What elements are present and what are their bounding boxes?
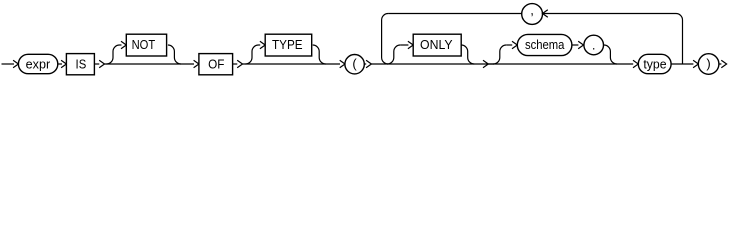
loop top line left bbox=[388, 13, 522, 15]
loop top line right bbox=[543, 13, 677, 15]
wire entry bbox=[2, 63, 15, 65]
branch down after NOT bbox=[168, 45, 181, 64]
svg-text:IS: IS bbox=[76, 56, 87, 71]
svg-text:schema: schema bbox=[525, 37, 565, 52]
arrow into OF bbox=[194, 60, 199, 67]
wire NOT bypass bbox=[105, 63, 195, 65]
arrow into expr bbox=[13, 60, 18, 67]
arrow after ( bbox=[366, 60, 371, 67]
keyword OF bbox=[199, 54, 233, 75]
branch up to NOT bbox=[107, 45, 120, 64]
keyword NOT bbox=[126, 34, 166, 56]
arrow into NOT bbox=[121, 41, 126, 48]
wire after ( bbox=[364, 63, 366, 65]
svg-text:(: ( bbox=[352, 56, 357, 71]
terminal expr bbox=[18, 54, 57, 73]
svg-text:TYPE: TYPE bbox=[272, 37, 303, 52]
terminal schema bbox=[517, 34, 572, 55]
svg-text:expr: expr bbox=[26, 56, 51, 71]
svg-text:ONLY: ONLY bbox=[420, 37, 453, 52]
branch up to TYPE bbox=[246, 45, 259, 64]
wire to TYPE bbox=[259, 44, 261, 46]
svg-text:,: , bbox=[530, 3, 534, 18]
wire after IS bbox=[94, 63, 99, 65]
loop comma circle bbox=[522, 4, 543, 25]
branch up to schema bbox=[493, 45, 506, 64]
svg-text:type: type bbox=[643, 56, 666, 71]
branch down after ONLY bbox=[461, 45, 474, 64]
arrow after ONLY merge bbox=[483, 60, 488, 67]
branch up to ONLY bbox=[387, 45, 400, 64]
loop left riser and corner bbox=[382, 14, 389, 65]
wire to ONLY bbox=[400, 44, 408, 46]
wire schema bypass bbox=[488, 63, 633, 65]
wire schema to dot bbox=[572, 44, 579, 46]
wire to schema bbox=[506, 44, 512, 46]
branch down after TYPE bbox=[313, 45, 326, 64]
wire type to close paren bbox=[671, 63, 693, 65]
arrow exit bbox=[721, 60, 726, 67]
branch down after dot bbox=[604, 45, 617, 64]
wire expr to IS bbox=[58, 63, 62, 65]
arrow into TYPE bbox=[260, 41, 265, 48]
arrow into type bbox=[633, 60, 638, 67]
svg-text:.: . bbox=[592, 37, 596, 52]
delimiter ( bbox=[345, 54, 364, 73]
wire loop span bbox=[371, 63, 494, 65]
wire exit bbox=[719, 63, 722, 65]
delimiter ) bbox=[698, 54, 719, 75]
loop right corner and riser bbox=[676, 14, 683, 65]
arrow into IS bbox=[61, 60, 66, 67]
wire after OF bbox=[233, 63, 238, 65]
delimiter . bbox=[584, 35, 604, 55]
keyword IS bbox=[66, 54, 94, 75]
svg-text:): ) bbox=[706, 56, 710, 71]
wire to NOT bbox=[120, 44, 122, 46]
arrow after OF bbox=[237, 60, 242, 67]
terminal type bbox=[638, 54, 671, 73]
arrow into dot bbox=[578, 41, 583, 48]
keyword ONLY bbox=[413, 34, 461, 56]
svg-text:NOT: NOT bbox=[132, 37, 156, 52]
keyword TYPE bbox=[265, 34, 312, 56]
arrow after IS bbox=[99, 60, 104, 67]
arrow into open paren bbox=[340, 60, 345, 67]
arrow into ONLY bbox=[408, 41, 413, 48]
arrow into comma (leftward) bbox=[543, 10, 548, 17]
arrow into schema bbox=[512, 41, 517, 48]
arrow into close paren bbox=[693, 60, 698, 67]
wire TYPE bypass bbox=[243, 63, 341, 65]
svg-text:OF: OF bbox=[208, 56, 224, 71]
